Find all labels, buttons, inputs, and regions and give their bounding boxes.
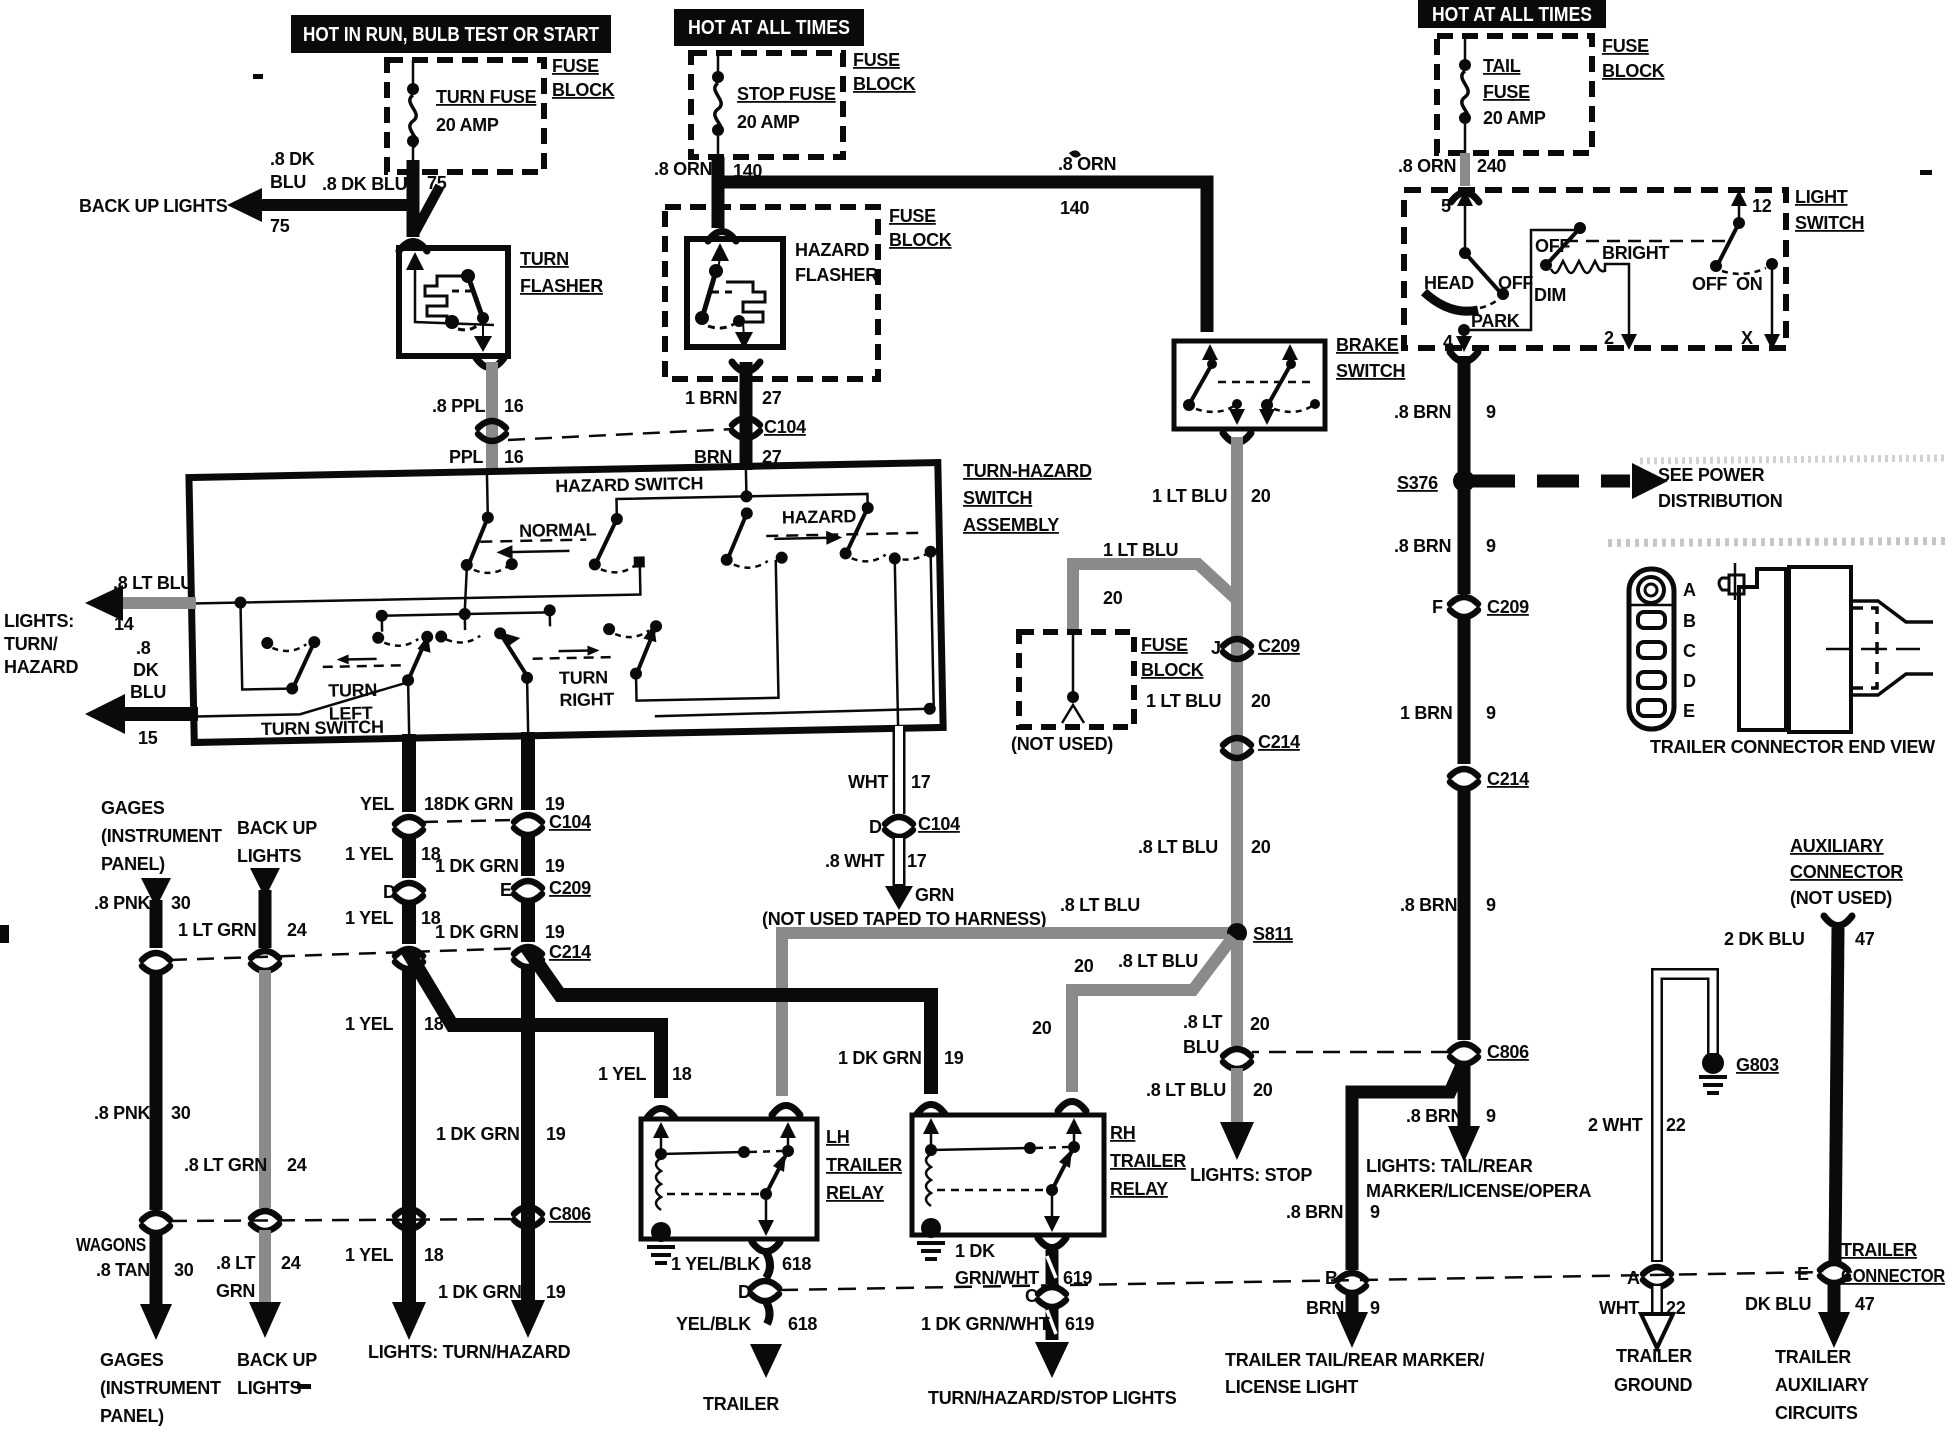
svg-text:BRN: BRN (1306, 1298, 1344, 1318)
svg-text:1 DK GRN: 1 DK GRN (435, 856, 519, 876)
svg-text:20: 20 (1251, 691, 1271, 711)
svg-text:PANEL): PANEL) (100, 1406, 164, 1426)
svg-text:.8 PNK: .8 PNK (94, 1103, 151, 1123)
wire C806 down to tail lights arrow (1458, 1062, 1471, 1130)
svg-text:24: 24 (287, 1155, 307, 1175)
G803 ground symbol (1699, 1077, 1727, 1093)
svg-text:9: 9 (1370, 1298, 1380, 1318)
svg-text:20: 20 (1032, 1018, 1052, 1038)
wire .8 LT BLU S811 to RH relay (grey) (1072, 937, 1233, 1092)
arrow turn/hazard/stop (1035, 1342, 1069, 1378)
svg-text:A: A (1627, 1268, 1640, 1288)
connector C209 clamp DKGRN (E) (514, 881, 542, 901)
clamp below hazard flasher (732, 362, 760, 372)
svg-text:(INSTRUMENT: (INSTRUMENT (100, 1378, 221, 1398)
svg-text:20: 20 (1103, 588, 1123, 608)
svg-text:C209: C209 (1258, 636, 1300, 656)
svg-text:BACK UP: BACK UP (237, 1350, 317, 1370)
svg-text:RH: RH (1110, 1123, 1135, 1143)
wire yel/blk below D (765, 1300, 770, 1324)
light switch dashed box (1404, 190, 1786, 348)
connector B clamp (1338, 1273, 1366, 1293)
turn sw unit L2 (372, 631, 435, 739)
wire light switch to S376 (1458, 356, 1471, 484)
svg-text:C806: C806 (1487, 1042, 1529, 1062)
svg-text:1 YEL: 1 YEL (345, 1245, 393, 1265)
banner HOT AT ALL TIMES (center) (674, 9, 864, 46)
svg-text:.8 LT BLU: .8 LT BLU (1060, 895, 1140, 915)
wire S811 down (grey) (1231, 940, 1243, 1046)
clamp above light switch (1451, 193, 1479, 203)
svg-text:YEL: YEL (360, 794, 394, 814)
connector C209 (J) in brake wire (1223, 639, 1251, 659)
wire 2 DK BLU aux down (1835, 928, 1838, 1262)
svg-text:20: 20 (1250, 1014, 1270, 1034)
svg-text:AUXILIARY: AUXILIARY (1790, 836, 1884, 856)
wire stop fuse down (712, 157, 725, 228)
clamp LH relay left pin (647, 1109, 675, 1119)
svg-text:9: 9 (1370, 1202, 1380, 1222)
svg-text:CIRCUITS: CIRCUITS (1775, 1403, 1858, 1423)
arrow LIGHTS STOP (1220, 1122, 1254, 1160)
wht pickup rail (193, 552, 936, 743)
scan noise strip above trailer end view (1608, 541, 1948, 543)
svg-text:HOT IN RUN, BULB TEST OR START: HOT IN RUN, BULB TEST OR START (303, 24, 599, 46)
svg-text:BLOCK: BLOCK (1141, 660, 1204, 680)
svg-text:1 YEL: 1 YEL (598, 1064, 646, 1084)
wire branch C806 to trailer tail (1352, 1065, 1462, 1270)
svg-text:YEL/BLK: YEL/BLK (676, 1314, 751, 1334)
svg-text:ASSEMBLY: ASSEMBLY (963, 515, 1059, 535)
stray mark (1069, 150, 1081, 157)
svg-text:HOT AT ALL TIMES: HOT AT ALL TIMES (688, 17, 850, 39)
svg-text:C: C (1683, 641, 1696, 661)
wire backup lower (grey) (259, 970, 271, 1208)
svg-text:TRAILER: TRAILER (1110, 1151, 1186, 1171)
svg-text:.8 LT BLU: .8 LT BLU (1146, 1080, 1226, 1100)
svg-text:BACK UP: BACK UP (237, 818, 317, 838)
svg-text:FUSE: FUSE (889, 206, 936, 226)
svg-text:1 BRN: 1 BRN (685, 388, 738, 408)
svg-text:15: 15 (138, 728, 158, 748)
svg-text:LIGHTS: LIGHTS (237, 1378, 301, 1398)
svg-text:BLU: BLU (270, 172, 306, 192)
svg-text:C209: C209 (549, 878, 591, 898)
connector C104 clamp DKGRN (514, 815, 542, 835)
svg-text:22: 22 (1666, 1115, 1686, 1135)
dashed row C104-left (423, 820, 514, 822)
wire BRN hazard flasher down (740, 362, 753, 470)
svg-text:75: 75 (427, 173, 447, 193)
svg-text:TRAILER CONNECTOR END VIEW: TRAILER CONNECTOR END VIEW (1650, 737, 1935, 757)
svg-text:(NOT USED): (NOT USED) (1790, 888, 1892, 908)
svg-text:20: 20 (1253, 1080, 1273, 1100)
connector C806 clamp YEL (395, 1209, 423, 1229)
svg-text:.8 DK: .8 DK (270, 149, 315, 169)
wire DK GRN branch to RH relay (527, 948, 931, 1094)
svg-text:BRIGHT: BRIGHT (1602, 243, 1669, 263)
svg-text:FUSE: FUSE (1483, 82, 1530, 102)
wire DKGRN C104-C209 (521, 836, 535, 876)
turn flasher U-box (399, 248, 508, 356)
svg-text:OFF: OFF (1535, 236, 1570, 256)
svg-text:TRAILER: TRAILER (826, 1155, 902, 1175)
svg-text:.8: .8 (136, 638, 151, 658)
svg-text:19: 19 (545, 856, 565, 876)
svg-text:D: D (383, 882, 396, 902)
wire .8 PNK lower (150, 972, 163, 1210)
connector C806 in tail wire (1450, 1044, 1478, 1064)
gages feed arrow (141, 878, 171, 908)
svg-text:.8 BRN: .8 BRN (1406, 1106, 1463, 1126)
clamp below light switch pin 4 (1450, 352, 1478, 362)
svg-text:G803: G803 (1736, 1055, 1779, 1075)
svg-text:TRAILER TAIL/REAR MARKER/: TRAILER TAIL/REAR MARKER/ (1225, 1350, 1484, 1370)
wire S376 down (1458, 481, 1471, 594)
svg-text:C: C (1025, 1286, 1038, 1306)
connector C clamp (trailer) (1038, 1287, 1066, 1307)
svg-text:CONNECTOR: CONNECTOR (1790, 862, 1903, 882)
svg-text:TRAILER: TRAILER (1841, 1240, 1917, 1260)
svg-text:HAZARD: HAZARD (795, 240, 869, 260)
hazard dashed arrow (766, 529, 926, 546)
svg-text:LICENSE LIGHT: LICENSE LIGHT (1225, 1377, 1358, 1397)
hazard sw unit1 pivot wire from PPL (459, 469, 518, 573)
tail fuse element (1459, 36, 1471, 153)
normal dashed arrow (480, 540, 586, 560)
left edge stray mark (0, 925, 9, 943)
svg-text:LH: LH (826, 1127, 849, 1147)
connector C104 clamp WHT (D) (885, 817, 913, 837)
svg-text:.8 TAN: .8 TAN (96, 1260, 150, 1280)
svg-text:(INSTRUMENT: (INSTRUMENT (101, 826, 222, 846)
svg-text:BLOCK: BLOCK (853, 74, 916, 94)
fuse block (hazard flasher) dashed box (665, 207, 878, 379)
svg-text:1 LT BLU: 1 LT BLU (1152, 486, 1227, 506)
fuse block stub (not used) (1062, 632, 1084, 723)
svg-text:1 DK GRN: 1 DK GRN (838, 1048, 922, 1068)
svg-text:LIGHTS: TAIL/REAR: LIGHTS: TAIL/REAR (1366, 1156, 1533, 1176)
svg-text:PPL: PPL (449, 447, 483, 467)
turn sw unit L4 (602, 560, 779, 701)
svg-text:30: 30 (171, 893, 191, 913)
svg-text:B: B (1683, 611, 1696, 631)
svg-text:OFF: OFF (1498, 273, 1533, 293)
wire DKGRN C214 to bottom arrow (521, 968, 535, 1308)
clamp RH relay left pin (917, 1105, 945, 1115)
svg-text:DK BLU: DK BLU (1745, 1294, 1811, 1314)
hazard sw unit4 (839, 501, 937, 562)
wire brake switch down to S811 (1231, 437, 1243, 930)
connector C104 in BRN wire (732, 418, 760, 438)
scan noise strip above SEE POWER (1640, 458, 1944, 461)
clamp LH relay bottom pin (752, 1242, 780, 1252)
arrow gages bottom (140, 1304, 172, 1340)
svg-text:1 DK: 1 DK (955, 1241, 995, 1261)
turn left dashed arrow (323, 653, 402, 667)
svg-text:16: 16 (504, 396, 524, 416)
wire PPL turn flasher to switch (486, 362, 498, 474)
svg-text:618: 618 (782, 1254, 811, 1274)
connector clamp in stop wire (1223, 1049, 1251, 1069)
turn right dashed arrow (532, 645, 611, 659)
svg-text:C209: C209 (1487, 597, 1529, 617)
turn sw unit L3 (435, 627, 534, 738)
svg-text:.8 ORN: .8 ORN (1398, 156, 1456, 176)
svg-text:5: 5 (1441, 196, 1451, 216)
hazard sw unit3 (720, 507, 788, 569)
svg-text:1 YEL: 1 YEL (345, 1014, 393, 1034)
turn flasher internals (406, 252, 494, 352)
svg-text:WHT: WHT (1599, 1298, 1639, 1318)
svg-text:18: 18 (672, 1064, 692, 1084)
wire .8 TAN (150, 1232, 163, 1310)
svg-text:.8 WHT: .8 WHT (825, 851, 885, 871)
svg-text:C214: C214 (1487, 769, 1529, 789)
svg-text:24: 24 (281, 1253, 301, 1273)
svg-text:17: 17 (907, 851, 927, 871)
svg-text:OFF: OFF (1692, 274, 1727, 294)
LH trailer relay box (641, 1119, 817, 1239)
svg-text:.8 BRN: .8 BRN (1394, 402, 1451, 422)
svg-text:.8 BRN: .8 BRN (1286, 1202, 1343, 1222)
wire YEL below box (402, 734, 416, 812)
dashed link PPL-connector to C104 (508, 429, 734, 440)
wire yel/blk to D clamp (766, 1252, 770, 1278)
svg-text:GRN: GRN (915, 885, 954, 905)
svg-text:1 LT GRN: 1 LT GRN (178, 920, 256, 940)
wire 1 LT BLU elbow to fuse block (1073, 564, 1237, 632)
svg-text:TURN/: TURN/ (4, 634, 58, 654)
svg-text:24: 24 (287, 920, 307, 940)
svg-text:.8 PNK: .8 PNK (94, 893, 151, 913)
dashed feed wire to power distribution (1473, 463, 1668, 499)
clamp RH relay right pin (1058, 1102, 1086, 1112)
svg-text:DISTRIBUTION: DISTRIBUTION (1658, 491, 1782, 511)
svg-text:GROUND: GROUND (1614, 1375, 1692, 1395)
connector C104 clamp YEL (395, 817, 423, 837)
small dash mark (297, 1384, 311, 1389)
svg-text:1 YEL: 1 YEL (345, 844, 393, 864)
connector C214 in brake wire (1223, 738, 1251, 758)
svg-text:18: 18 (424, 1245, 444, 1265)
svg-text:19: 19 (546, 1124, 566, 1144)
wire turn fuse to turn flasher (407, 160, 420, 237)
svg-text:FLASHER: FLASHER (520, 276, 603, 296)
svg-text:S376: S376 (1397, 473, 1438, 493)
dashed link C806 to stop wire (1252, 1051, 1448, 1054)
RH relay internals (921, 1118, 1082, 1238)
connector C806 clamp DKGRN (514, 1207, 542, 1227)
wire .8 LT BLU S811 to LH relay (grey) (782, 933, 1233, 1096)
svg-text:9: 9 (1486, 402, 1496, 422)
svg-text:47: 47 (1855, 1294, 1875, 1314)
svg-text:9: 9 (1486, 536, 1496, 556)
svg-text:20: 20 (1251, 486, 1271, 506)
svg-text:HAZARD: HAZARD (782, 506, 857, 527)
clamp below aux connector (1824, 916, 1852, 926)
wire stop lower (grey) (1231, 1068, 1243, 1126)
svg-text:.8 LT GRN: .8 LT GRN (184, 1155, 267, 1175)
clamp LH relay right pin (772, 1106, 800, 1116)
wire/arrow to BACK UP LIGHTS (227, 186, 440, 234)
svg-text:BLU: BLU (130, 682, 166, 702)
wire backup bottom (grey) (259, 1230, 271, 1308)
svg-text:E: E (1683, 701, 1695, 721)
wire dk grn/wht striped lower (1047, 1306, 1056, 1340)
svg-text:20: 20 (1074, 956, 1094, 976)
svg-text:X: X (1741, 328, 1753, 348)
svg-text:BLOCK: BLOCK (889, 230, 952, 250)
svg-text:HOT AT ALL TIMES: HOT AT ALL TIMES (1432, 4, 1592, 26)
svg-text:FUSE: FUSE (1141, 635, 1188, 655)
svg-text:C214: C214 (1258, 732, 1300, 752)
wire DKGRN C209-C214 (521, 902, 535, 942)
svg-text:PARK: PARK (1471, 311, 1520, 331)
trailer connector end view: pill body (1629, 569, 1674, 729)
clamp below brake switch (1223, 433, 1251, 443)
svg-text:FUSE: FUSE (853, 50, 900, 70)
svg-text:B: B (1325, 1268, 1338, 1288)
wire E to aux arrow (1828, 1282, 1841, 1316)
svg-text:14: 14 (114, 614, 134, 634)
svg-text:75: 75 (270, 216, 290, 236)
svg-text:.8 PPL: .8 PPL (432, 396, 486, 416)
svg-text:HAZARD SWITCH: HAZARD SWITCH (555, 473, 703, 496)
svg-text:TRAILER: TRAILER (703, 1394, 779, 1414)
svg-text:E: E (500, 880, 512, 900)
light switch internals (1424, 190, 1780, 352)
wire C214 to C806 (1458, 788, 1471, 1040)
svg-text:RELAY: RELAY (826, 1183, 884, 1203)
node S811 (1227, 923, 1247, 943)
wire YEL C214 to bottom arrow (402, 970, 416, 1310)
svg-text:GAGES: GAGES (101, 798, 165, 818)
clamp above hazard flasher (708, 232, 736, 242)
svg-text:1 DK GRN: 1 DK GRN (436, 1124, 520, 1144)
svg-text:FLASHER: FLASHER (795, 265, 878, 285)
connector C209 (F) in tail wire (1450, 597, 1478, 617)
svg-text:SWITCH: SWITCH (1795, 213, 1864, 233)
backup feed arrow (250, 868, 280, 898)
connector in PPL wire (478, 421, 506, 441)
svg-text:(NOT USED TAPED TO HARNESS): (NOT USED TAPED TO HARNESS) (762, 909, 1047, 929)
svg-text:ON: ON (1736, 274, 1762, 294)
svg-text:1 DK GRN: 1 DK GRN (438, 1282, 522, 1302)
connector clamp pnk row1 (142, 953, 170, 973)
arrow backup bottom (249, 1302, 281, 1338)
connector A clamp (1643, 1267, 1671, 1287)
LH relay internals (651, 1122, 796, 1242)
svg-text:D: D (738, 1282, 751, 1302)
svg-text:.8 BRN: .8 BRN (1400, 895, 1457, 915)
hollow arrow GRN stub (885, 886, 913, 910)
svg-text:CONNECTOR: CONNECTOR (1841, 1266, 1945, 1286)
trailer connector side view (1719, 563, 1933, 732)
svg-text:27: 27 (762, 388, 782, 408)
fuse block (turn fuse) dashed box (387, 60, 544, 172)
RH relay ground (917, 1243, 945, 1259)
svg-text:A: A (1683, 580, 1696, 600)
connector C214 in tail wire (1450, 769, 1478, 789)
svg-text:BLOCK: BLOCK (1602, 61, 1665, 81)
svg-text:2 DK BLU: 2 DK BLU (1724, 929, 1805, 949)
wire tail fuse down (1460, 153, 1470, 186)
svg-text:TURN FUSE: TURN FUSE (436, 87, 537, 107)
svg-text:TURN SWITCH: TURN SWITCH (261, 717, 384, 739)
svg-text:9: 9 (1486, 1106, 1496, 1126)
arrow bottom DKGRN (511, 1300, 545, 1338)
svg-text:C214: C214 (549, 942, 591, 962)
svg-text:NORMAL: NORMAL (519, 519, 597, 541)
svg-text:C104: C104 (764, 417, 806, 437)
svg-text:LIGHTS: LIGHTS (237, 846, 301, 866)
LH relay ground (647, 1247, 675, 1263)
wire B to trailer tail arrow (1346, 1292, 1359, 1318)
svg-text:TURN: TURN (520, 249, 569, 269)
wire YEL C209-C214 (402, 904, 416, 944)
svg-text:.8 LT BLU: .8 LT BLU (1138, 837, 1218, 857)
connector clamp backup row2 (251, 1211, 279, 1231)
turn-hazard switch assembly box (189, 463, 943, 743)
svg-text:1 DK GRN/WHT: 1 DK GRN/WHT (921, 1314, 1050, 1334)
svg-text:TRAILER: TRAILER (1775, 1347, 1851, 1367)
svg-text:HEAD: HEAD (1424, 273, 1474, 293)
svg-text:.8 LT: .8 LT (1183, 1012, 1222, 1032)
svg-text:LIGHTS: TURN/HAZARD: LIGHTS: TURN/HAZARD (368, 1342, 571, 1362)
wire YEL branch to LH relay (407, 950, 661, 1098)
svg-text:SWITCH: SWITCH (1336, 361, 1405, 381)
svg-text:C104: C104 (918, 814, 960, 834)
node S376 (1453, 470, 1475, 492)
connector E clamp (1820, 1263, 1848, 1283)
svg-text:240: 240 (1477, 156, 1506, 176)
svg-text:20 AMP: 20 AMP (1483, 108, 1546, 128)
stray dot top-left (253, 74, 263, 79)
svg-text:TAIL: TAIL (1483, 56, 1521, 76)
svg-text:GAGES: GAGES (100, 1350, 164, 1370)
fuse block (not used) dashed box (1019, 632, 1134, 727)
clamp below turn flasher (476, 358, 504, 368)
wire .8 WHT below C104 (hollow) (893, 838, 906, 888)
svg-text:30: 30 (171, 1103, 191, 1123)
svg-text:.8 DK BLU: .8 DK BLU (322, 174, 407, 194)
turn fuse element (407, 60, 419, 172)
svg-text:1 YEL: 1 YEL (345, 908, 393, 928)
svg-text:BRAKE: BRAKE (1336, 335, 1399, 355)
svg-text:BLU: BLU (1183, 1037, 1219, 1057)
hazard sw unit2 (588, 512, 645, 572)
left rail to lights turn hazard (191, 567, 642, 691)
svg-text:47: 47 (1855, 929, 1875, 949)
brake switch box (1174, 341, 1325, 429)
dashed trailer connector row (780, 1272, 1824, 1290)
svg-text:SEE POWER: SEE POWER (1658, 465, 1765, 485)
svg-text:S811: S811 (1253, 924, 1293, 944)
svg-text:TURN/HAZARD/STOP LIGHTS: TURN/HAZARD/STOP LIGHTS (928, 1388, 1177, 1408)
dashed connector row C806-left (170, 1219, 527, 1221)
svg-text:TRAILER: TRAILER (1616, 1346, 1692, 1366)
banner HOT AT ALL TIMES (right) (1418, 0, 1606, 28)
grey arrow lights turn/hazard 14 (85, 585, 196, 621)
svg-text:AUXILIARY: AUXILIARY (1775, 1375, 1869, 1395)
svg-text:.8 ORN: .8 ORN (1058, 154, 1116, 174)
arrow trailer tail (1336, 1312, 1368, 1348)
svg-text:DK: DK (133, 660, 159, 680)
svg-text:FUSE: FUSE (1602, 36, 1649, 56)
svg-text:2: 2 (1604, 328, 1614, 348)
RH trailer relay box (912, 1115, 1104, 1235)
